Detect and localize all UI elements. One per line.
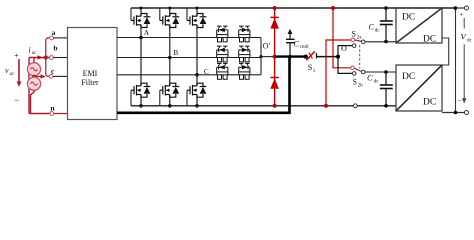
- contact S2b black: [352, 72, 356, 76]
- transistor S_B- (bottom leg2): [160, 83, 179, 98]
- svg-text:S: S: [352, 29, 356, 38]
- wire O' to clamp diodes: [261, 56, 276, 58]
- bidirectional switch pair row B right: [239, 46, 250, 62]
- thick CM return wire from EMI: [117, 57, 290, 113]
- converter box bottom: [396, 65, 442, 111]
- bidirectional switch pair row C left: [217, 63, 228, 79]
- svg-text:O: O: [341, 44, 347, 53]
- svg-text:ac: ac: [10, 72, 16, 77]
- svg-text:C: C: [294, 39, 300, 48]
- node O' tap on bus: [259, 55, 262, 58]
- S1 right contact tick: [316, 53, 318, 59]
- svg-text:i: i: [29, 45, 31, 54]
- svg-text:cm0: cm0: [300, 45, 309, 50]
- transistor S_C- (bottom leg3): [187, 83, 206, 98]
- svg-text:A: A: [144, 28, 150, 37]
- wire S2b common to bottom cell: [365, 71, 396, 73]
- ac source vs1: [33, 58, 35, 63]
- wire: top red horizontal (i_ac wire to b): [29, 57, 50, 59]
- svg-text:DC: DC: [402, 13, 415, 23]
- bidirectional switch pair row A left: [217, 26, 228, 42]
- node bottom output junction: [454, 111, 458, 115]
- wire n to EMI: [54, 113, 68, 115]
- wire: red clamp vertical: [274, 8, 276, 106]
- svg-text:+: +: [460, 11, 464, 19]
- terminal c: [49, 75, 53, 79]
- contact S2a red: [351, 38, 355, 42]
- gate riser leg1 top: [130, 8, 132, 21]
- current arrow i_ac on b wire: [38, 55, 44, 60]
- node A junction: [139, 36, 143, 40]
- connector circle on N rail: [353, 104, 357, 108]
- node C_cm0 tap: [288, 55, 292, 59]
- svg-text:Filter: Filter: [81, 78, 99, 87]
- wire: midpoint bus of switch block: [260, 38, 262, 75]
- EMI filter box: [68, 28, 118, 120]
- current arrow at source midpoint: [34, 74, 46, 78]
- phase line A: [117, 37, 261, 39]
- svg-text:a: a: [52, 28, 56, 37]
- svg-text:DC: DC: [423, 35, 436, 45]
- dashed gang link S2a-S2b: [359, 45, 361, 68]
- node C junction: [195, 73, 199, 77]
- wire: red branch b-junction up to a terminal: [46, 38, 50, 58]
- bottom rail N: [131, 105, 396, 107]
- svg-text:DC: DC: [402, 72, 415, 82]
- wire: bottom red horizontal to n: [29, 113, 50, 115]
- wire: red P drop from top rail: [333, 8, 351, 68]
- svg-text:+: +: [14, 51, 19, 60]
- terminal n: [50, 112, 54, 116]
- wire: red N riser from bottom rail: [326, 40, 351, 106]
- svg-text:−: −: [458, 96, 462, 105]
- node junction on b wire: [44, 55, 48, 59]
- bidirectional switch pair row B left: [217, 46, 228, 62]
- node: clamp top on P rail: [273, 6, 277, 10]
- svg-text:C: C: [369, 23, 375, 32]
- node S1 left contact: [304, 55, 308, 59]
- wire top to + terminal: [456, 7, 465, 9]
- svg-text:O′: O′: [263, 41, 271, 50]
- wire: node O vertical: [338, 46, 352, 74]
- svg-text:S: S: [308, 63, 312, 72]
- contact S2a black: [352, 44, 356, 48]
- node: clamp bottom on N rail: [273, 104, 277, 108]
- wire: left red vertical: [28, 58, 30, 114]
- diode D1 (top clamp): [270, 17, 279, 28]
- wire c to EMI: [53, 75, 68, 77]
- transistor S_C+ (top leg3): [187, 13, 206, 28]
- svg-text:S: S: [353, 78, 357, 87]
- node leg1 on P rail: [140, 7, 143, 10]
- bidirectional switch pair row A right: [239, 26, 250, 42]
- ac source vs2: [27, 77, 40, 90]
- node: clamp midpoint O': [273, 55, 277, 59]
- svg-text:b: b: [53, 44, 57, 53]
- voltage arrow V_dc: [463, 18, 465, 29]
- capacitor C_dc top: [380, 8, 393, 42]
- wire: output bus vertical: [455, 8, 457, 113]
- bidirectional switch pair row C right: [239, 63, 250, 79]
- wire: bottom output: [442, 112, 465, 114]
- node N tap on bottom rail: [324, 104, 328, 108]
- phase line B: [117, 57, 261, 59]
- voltage arrow v_ac: [17, 59, 22, 87]
- wire S2a common to top cell: [365, 41, 396, 43]
- switch S2a common + blade: [361, 40, 365, 44]
- svg-text:v: v: [5, 66, 9, 75]
- capacitor C_cm0: [286, 33, 295, 57]
- terminal b: [50, 56, 54, 60]
- gate riser leg3 bottom: [186, 90, 188, 106]
- svg-text:dc: dc: [375, 29, 381, 34]
- wire S1 to node O: [317, 56, 339, 58]
- gate riser leg2 bottom: [159, 90, 161, 106]
- terminal -: [465, 111, 469, 115]
- svg-text:DC: DC: [423, 98, 436, 108]
- svg-text:dc: dc: [374, 79, 380, 85]
- node leg3 on P rail: [196, 7, 199, 10]
- wire: series link between converters: [442, 38, 449, 65]
- node between sources: [32, 75, 36, 79]
- leg feet junctions on N rail: [139, 104, 143, 108]
- gate riser leg3 top: [186, 8, 188, 21]
- wire: red branch b-junction down to c terminal: [46, 58, 49, 77]
- leg 1 wires: [140, 8, 142, 106]
- gate riser leg1 bottom: [130, 90, 132, 106]
- diode D2 (bottom clamp): [270, 78, 279, 89]
- transistor S_A+ (top leg1): [131, 13, 150, 28]
- svg-text:ac: ac: [32, 51, 38, 56]
- top rail P: [131, 7, 457, 9]
- node O junction with midpoint wire: [336, 55, 340, 59]
- svg-text:2b: 2b: [358, 84, 364, 89]
- node leg2 on P rail: [168, 7, 171, 10]
- svg-text:C: C: [367, 73, 373, 83]
- svg-text:2a: 2a: [357, 35, 363, 40]
- node P tap on top rail: [331, 6, 335, 10]
- switch S1 blade (red): [306, 51, 315, 60]
- node B junction: [168, 56, 172, 60]
- converter box top: [396, 8, 442, 43]
- svg-text:B: B: [173, 48, 178, 57]
- wire a to EMI: [53, 37, 67, 39]
- phase line C: [117, 74, 261, 76]
- node top output junction: [454, 6, 458, 10]
- arrow to chassis above C_cm0: [288, 29, 293, 34]
- svg-text:−: −: [14, 95, 19, 105]
- leg 3 wires: [196, 8, 198, 106]
- svg-text:C: C: [204, 67, 209, 76]
- leg 2 wires: [169, 8, 171, 106]
- transistor S_B+ (top leg2): [160, 13, 179, 28]
- wire b to EMI: [53, 57, 67, 59]
- capacitor C_dc bottom: [380, 72, 393, 106]
- gate riser leg2 top: [159, 8, 161, 21]
- wire: thick midpoint wire O' to S1: [276, 55, 306, 57]
- transistor S_A- (bottom leg1): [131, 83, 150, 98]
- switch S2b common + blade: [361, 70, 365, 74]
- contact S2b red: [351, 66, 355, 70]
- terminal a: [50, 36, 54, 40]
- svg-text:dc: dc: [467, 39, 473, 44]
- terminal +: [465, 6, 469, 10]
